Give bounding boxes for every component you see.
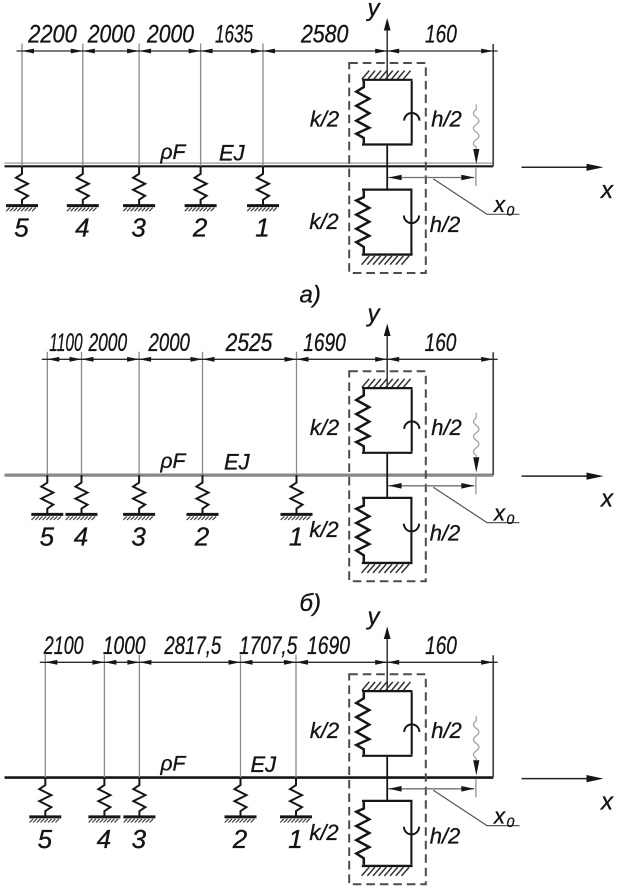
support spring 5 [39, 778, 51, 817]
damper h/2 upper right edge fig c [404, 692, 419, 755]
fixed floor hatching fig a [362, 256, 410, 265]
right extension line (160) fig b [492, 352, 494, 475]
damper h/2 lower right edge fig c [404, 802, 419, 865]
support spring 2 [195, 166, 207, 205]
fixed ceiling hatching fig a [362, 71, 411, 80]
extension line 4 fig b [202, 352, 204, 475]
svg-text:0: 0 [507, 814, 515, 830]
right extension line (160) fig c [492, 655, 494, 777]
extension line 5 fig a [262, 44, 264, 167]
dashed enclosure (vibro unit) fig b [349, 371, 426, 581]
x0 right boundary line fig a [475, 168, 477, 186]
right extension line (160) fig a [492, 44, 494, 166]
dimension arrows segment 160 fig b [387, 357, 493, 362]
dimension line fig b [42, 358, 498, 360]
support spring 3 [133, 166, 145, 205]
support spring 3 [133, 475, 145, 514]
svg-text:1: 1 [255, 213, 269, 243]
fixed floor hatching fig c [362, 867, 410, 876]
dimension arrows segment 160 fig c [387, 660, 493, 665]
svg-text:3: 3 [131, 213, 146, 243]
svg-text:EJ: EJ [219, 141, 246, 166]
dimension arrows segment 2000 fig b [82, 357, 140, 362]
svg-text:h/2: h/2 [431, 107, 462, 132]
damper h/2 lower right edge fig a [404, 191, 419, 254]
svg-text:2525: 2525 [225, 329, 273, 357]
dimension arrows segment 2525 fig b [203, 357, 297, 362]
dimension arrows segment 1690 fig c [296, 660, 387, 665]
extension line 2 fig b [81, 352, 83, 475]
support spring 3 [133, 778, 145, 817]
svg-text:1635: 1635 [215, 21, 253, 49]
y-axis fig c [384, 627, 391, 692]
support spring 5 [16, 166, 28, 205]
ground under spring 5 [29, 817, 61, 823]
svg-text:ρF: ρF [160, 752, 187, 775]
extension line 2 fig c [103, 655, 105, 778]
excitation wavy line fig b [473, 413, 479, 458]
svg-text:k/2: k/2 [310, 718, 339, 743]
ground under spring 3 [123, 817, 155, 823]
svg-text:2000: 2000 [87, 21, 135, 49]
label x0 fig a [493, 192, 515, 219]
svg-text:160: 160 [425, 632, 457, 660]
fixed floor line fig a [362, 253, 413, 255]
dimension arrows segment 2000 fig b [139, 357, 202, 362]
dimension arrows segment 1100 fig b [47, 357, 81, 362]
x-axis fig a [522, 164, 604, 171]
dashed enclosure (vibro unit) fig c [349, 674, 426, 884]
dimension arrows segment 1000 fig c [104, 660, 139, 665]
stem to beam fig a [386, 146, 388, 191]
upper unit bottom bar fig b [362, 452, 413, 454]
svg-text:2: 2 [232, 824, 248, 854]
ground under spring 2 [187, 514, 219, 520]
support spring 5 [41, 475, 53, 514]
svg-text:y: y [366, 604, 382, 631]
y-axis fig a [384, 18, 391, 80]
spring k/2 lower fig c [356, 802, 369, 865]
svg-text:1100: 1100 [49, 329, 82, 357]
svg-text:2000: 2000 [148, 329, 190, 357]
ground under spring 4 [67, 206, 99, 212]
extension line 5 fig c [295, 655, 297, 778]
svg-text:EJ: EJ [224, 449, 251, 474]
svg-text:0: 0 [507, 511, 515, 527]
upper unit bottom bar fig c [362, 755, 413, 757]
fixed ceiling line fig b [362, 387, 413, 389]
upper unit bottom bar fig a [362, 143, 413, 145]
dimension line fig c [40, 661, 498, 663]
svg-text:1: 1 [288, 824, 302, 854]
extension line 3 fig a [138, 44, 140, 167]
svg-text:160: 160 [425, 329, 457, 357]
damper h/2 upper right edge fig b [404, 389, 419, 452]
svg-text:k/2: k/2 [310, 107, 339, 132]
extension line 3 fig b [138, 352, 140, 475]
dimension arrows segment 1707,5 fig c [241, 660, 297, 665]
svg-text:1690: 1690 [307, 632, 350, 660]
svg-text:3: 3 [131, 521, 146, 551]
svg-text:x: x [493, 500, 506, 525]
extension line 3 fig c [138, 655, 140, 778]
excitation wavy line fig c [473, 716, 479, 761]
svg-text:h/2: h/2 [431, 415, 462, 440]
fixed floor hatching fig b [362, 564, 410, 573]
extension line 4 fig a [200, 44, 202, 167]
dimension arrows segment 1635 fig a [201, 49, 263, 54]
svg-text:1707,5: 1707,5 [239, 632, 297, 660]
svg-text:0: 0 [507, 203, 515, 219]
lower unit top bar fig a [362, 189, 413, 191]
svg-text:y: y [366, 301, 382, 328]
ground under spring 3 [123, 514, 155, 520]
fixed ceiling hatching fig b [362, 379, 411, 388]
beam EJ fig b [5, 474, 494, 477]
dimension line fig a [17, 50, 498, 52]
x0 leader line fig c [433, 790, 519, 825]
support spring 2 [197, 475, 209, 514]
svg-text:4: 4 [97, 824, 111, 854]
x0 right boundary line fig b [475, 477, 477, 495]
excitation arrow down fig b [473, 457, 479, 472]
label x0 fig c [493, 803, 515, 830]
svg-text:1: 1 [289, 521, 303, 551]
svg-text:k/2: k/2 [309, 517, 338, 542]
ground under spring 3 [123, 206, 155, 212]
svg-text:h/2: h/2 [430, 823, 461, 848]
svg-text:2817,5: 2817,5 [164, 632, 222, 660]
dimension arrows segment 2580 fig a [263, 49, 387, 54]
excitation arrow down fig c [473, 760, 479, 775]
svg-text:h/2: h/2 [430, 212, 461, 237]
x0 dimension line fig c [388, 786, 474, 792]
spring k/2 upper fig b [356, 389, 369, 452]
lower unit top bar fig c [362, 800, 413, 802]
extension line 5 fig b [296, 352, 298, 475]
x0 dimension line fig a [388, 175, 474, 181]
support spring 4 [76, 475, 88, 514]
svg-text:4: 4 [75, 213, 89, 243]
spring k/2 lower fig b [356, 499, 369, 562]
svg-text:5: 5 [38, 824, 53, 854]
dimension arrows segment 2100 fig c [45, 660, 104, 665]
svg-text:x: x [493, 803, 506, 828]
svg-text:2: 2 [194, 521, 210, 551]
svg-text:4: 4 [74, 521, 88, 551]
svg-text:ρF: ρF [160, 450, 187, 473]
svg-text:2: 2 [192, 213, 208, 243]
label x0 fig b [493, 500, 515, 527]
ground under spring 5 [31, 514, 63, 520]
stem to beam fig b [386, 454, 388, 499]
dimension arrows segment 2000 fig a [83, 49, 139, 54]
svg-text:EJ: EJ [251, 752, 278, 777]
dimension arrows segment 2000 fig a [139, 49, 201, 54]
support spring 1 [257, 166, 269, 205]
extension line 1 fig c [44, 655, 46, 778]
svg-text:3: 3 [132, 824, 147, 854]
fixed floor line fig c [362, 865, 413, 867]
svg-text:h/2: h/2 [431, 718, 462, 743]
ground under spring 1 [247, 206, 279, 212]
svg-text:1000: 1000 [103, 632, 146, 660]
dimension arrows segment 160 fig a [387, 49, 493, 54]
support spring 4 [98, 778, 110, 817]
svg-text:y: y [366, 0, 382, 22]
lower unit top bar fig b [362, 497, 413, 499]
x-axis fig b [522, 473, 604, 480]
svg-text:160: 160 [425, 21, 457, 49]
svg-text:x: x [600, 177, 614, 204]
x0 right boundary line fig c [475, 779, 477, 797]
support spring 1 [290, 778, 302, 817]
svg-text:k/2: k/2 [309, 820, 338, 845]
svg-text:б): б) [300, 590, 322, 617]
svg-text:2200: 2200 [27, 21, 77, 49]
extension line 1 fig b [46, 352, 48, 475]
support spring 2 [235, 778, 247, 817]
svg-text:ρF: ρF [160, 141, 187, 164]
svg-text:x: x [600, 486, 614, 513]
ground under spring 5 [6, 206, 38, 212]
x0 leader line fig b [433, 487, 519, 522]
extension line 4 fig c [240, 655, 242, 778]
fixed floor line fig b [362, 562, 413, 564]
x0 dimension line fig b [388, 483, 474, 489]
support spring 1 [291, 475, 303, 514]
beam EJ fig a [5, 165, 494, 167]
svg-text:x: x [493, 192, 506, 217]
damper h/2 lower right edge fig b [404, 499, 419, 562]
stem to beam fig c [386, 757, 388, 802]
dimension arrows segment 1690 fig b [297, 357, 388, 362]
extension line 1 fig a [21, 44, 23, 167]
svg-text:2100: 2100 [43, 632, 84, 660]
svg-text:2000: 2000 [88, 329, 127, 357]
fixed ceiling hatching fig c [362, 682, 411, 691]
svg-text:k/2: k/2 [309, 209, 338, 234]
svg-text:5: 5 [40, 521, 55, 551]
beam top edge (gray) fig a [5, 162, 494, 164]
spring k/2 lower fig a [356, 191, 369, 254]
ground under spring 1 [281, 514, 313, 520]
svg-text:1690: 1690 [303, 329, 346, 357]
spring k/2 upper fig c [356, 692, 369, 755]
fixed ceiling line fig c [362, 690, 413, 692]
ground under spring 4 [88, 817, 120, 823]
damper h/2 upper right edge fig a [404, 81, 419, 143]
ground under spring 2 [225, 817, 257, 823]
beam EJ fig c [5, 776, 494, 779]
svg-text:x: x [600, 789, 614, 816]
excitation wavy line fig a [473, 105, 479, 150]
fixed ceiling line fig a [362, 79, 413, 81]
y-axis fig b [384, 324, 391, 389]
x-axis fig c [522, 775, 604, 782]
ground under spring 2 [185, 206, 217, 212]
support spring 4 [77, 166, 89, 205]
ground under spring 4 [66, 514, 98, 520]
excitation arrow down fig a [473, 149, 479, 164]
dimension arrows segment 2200 fig a [22, 49, 83, 54]
svg-text:h/2: h/2 [430, 520, 461, 545]
svg-text:2580: 2580 [300, 21, 348, 49]
svg-text:5: 5 [14, 213, 29, 243]
extension line 2 fig a [82, 44, 84, 167]
svg-text:2000: 2000 [146, 21, 194, 49]
x0 leader line fig a [433, 179, 519, 214]
svg-text:k/2: k/2 [310, 415, 339, 440]
spring k/2 upper fig a [356, 81, 369, 143]
ground under spring 1 [280, 817, 312, 823]
dashed enclosure (vibro unit) fig a [349, 63, 426, 273]
dimension arrows segment 2817,5 fig c [139, 660, 240, 665]
svg-text:а): а) [300, 282, 321, 309]
